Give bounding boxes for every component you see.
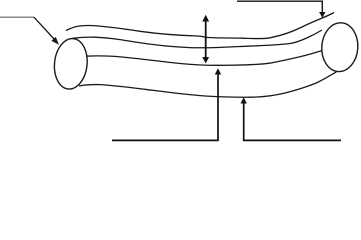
bottom right leader line with up arrow: [244, 102, 341, 140]
left leader horizontal line: [0, 16, 34, 18]
wire middle curve 3: [86, 51, 323, 66]
double-headed vertical arrow: [205, 20, 207, 58]
wire top curve 2 (inner top wall): [73, 30, 323, 48]
top right leader line with down arrow: [237, 1, 322, 13]
wire top curve 1 (outer top wall): [66, 13, 334, 39]
left leader diagonal line: [34, 17, 55, 39]
bottom left leader line with up arrow: [112, 73, 218, 140]
right ellipse (tube end): [320, 22, 359, 73]
wire bottom curve: [79, 72, 337, 97]
left leader arrowhead: [51, 37, 59, 45]
left ellipse (tube end): [52, 37, 90, 91]
